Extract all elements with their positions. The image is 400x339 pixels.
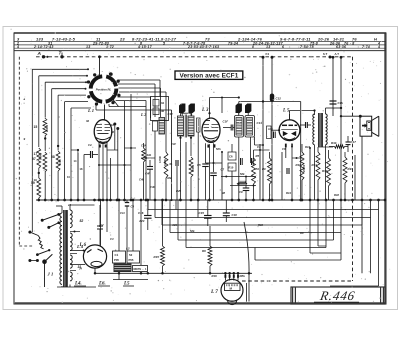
wire curve to magic eye xyxy=(244,222,249,273)
T1 bottom wires xyxy=(180,136,182,200)
svg-text:R15: R15 xyxy=(154,255,160,259)
IF transformer T2 trimmer arrow 1 xyxy=(236,104,242,114)
resistor R30 xyxy=(327,158,331,186)
loop end dots xyxy=(87,68,89,70)
svg-text:20·26: 20·26 xyxy=(317,36,330,41)
rectifier leads xyxy=(100,200,102,246)
svg-text:7·74: 7·74 xyxy=(362,45,370,49)
svg-text:52k: 52k xyxy=(240,172,245,176)
IF transformer T1 trimmer arrow 2 xyxy=(189,104,195,114)
tube L5 grid dashes xyxy=(282,124,287,126)
wire horizontal connector xyxy=(318,146,333,148)
capacitor C18b on right feed xyxy=(330,100,337,102)
capacitor C18 xyxy=(223,212,230,214)
svg-text:0: 0 xyxy=(252,45,254,49)
svg-text:14·31: 14·31 xyxy=(333,36,345,41)
svg-text:36: 36 xyxy=(161,109,165,113)
svg-text:R33: R33 xyxy=(348,167,354,171)
capacitor C5 xyxy=(202,163,209,165)
svg-text:Version avec ECF1: Version avec ECF1 xyxy=(179,73,238,80)
svg-text:34b: 34b xyxy=(147,153,152,157)
wire xyxy=(83,155,85,201)
wire xyxy=(117,129,119,201)
capacitor C13 xyxy=(305,122,307,128)
magic eye leads xyxy=(224,273,226,280)
transformer to rectifier wires xyxy=(70,250,84,252)
svg-text:10000: 10000 xyxy=(164,158,167,166)
svg-text:7·54·78: 7·54·78 xyxy=(300,45,314,49)
T2 bottom wires xyxy=(238,137,240,200)
striped box BOB MODUL xyxy=(114,264,132,273)
wire speaker return xyxy=(361,136,363,273)
svg-text:133: 133 xyxy=(36,36,44,41)
transformer bottom leads xyxy=(61,286,63,287)
tube L5 pin stubs xyxy=(285,144,287,148)
tube L5 pin wires xyxy=(285,147,287,158)
svg-text:1·72: 1·72 xyxy=(106,45,114,49)
resistor 59 xyxy=(37,178,41,198)
drawing frame xyxy=(14,33,386,304)
resistor R33 xyxy=(343,157,347,183)
svg-text:R.446: R.446 xyxy=(318,288,356,303)
wire L5 right xyxy=(300,115,302,200)
capacitor pair b xyxy=(251,158,253,165)
option box C1 POS xyxy=(113,251,126,263)
capacitor small mid 1 xyxy=(175,160,177,166)
svg-text:1000: 1000 xyxy=(58,159,62,165)
IF transformer T2 trimmer arrow 2 xyxy=(245,104,251,114)
wire xyxy=(175,200,177,210)
svg-text:C8: C8 xyxy=(131,205,135,209)
svg-text:C5A: C5A xyxy=(141,144,146,148)
resistor 17 xyxy=(43,152,47,172)
padder component box xyxy=(151,97,169,121)
svg-text:40000: 40000 xyxy=(191,164,195,172)
wire xyxy=(118,272,120,280)
svg-text:8·72·23·41·11,8·13·27: 8·72·23·41·11,8·13·27 xyxy=(132,36,177,41)
svg-text:R8b: R8b xyxy=(240,274,246,278)
svg-text:C4b: C4b xyxy=(139,178,144,182)
switch lever 3 xyxy=(37,250,49,254)
capacitor pair a xyxy=(240,158,242,165)
svg-text:C9: C9 xyxy=(239,190,243,194)
wire xyxy=(281,152,283,200)
wire xyxy=(125,147,137,149)
wire xyxy=(44,172,46,200)
bus junction dots xyxy=(37,199,40,202)
wire ring to padder top xyxy=(118,79,160,81)
wire horizontal connector xyxy=(292,157,302,159)
speaker frame xyxy=(360,116,372,136)
wire right feed B xyxy=(340,56,343,59)
svg-text:C4: C4 xyxy=(257,145,261,149)
wire horizontal connector xyxy=(254,149,270,151)
wire xyxy=(221,152,223,200)
wire under ring 2 xyxy=(108,104,110,107)
wire xyxy=(354,155,356,200)
wire drops to supply boxes xyxy=(118,200,120,251)
svg-text:73: 73 xyxy=(205,36,210,41)
capacitor A10 xyxy=(273,132,275,139)
tube L3 top pin xyxy=(209,113,211,119)
tube L5 envelope xyxy=(279,120,300,141)
svg-text:C8: C8 xyxy=(282,147,286,151)
wire xyxy=(221,98,223,114)
noise speckles xyxy=(135,74,136,75)
lower wire bus xyxy=(95,272,253,274)
wire xyxy=(44,136,46,151)
svg-text:L 7: L 7 xyxy=(210,289,218,295)
version label box xyxy=(175,71,243,79)
wire xyxy=(309,200,311,253)
svg-text:C6: C6 xyxy=(229,155,233,159)
wiring harness below bus xyxy=(148,209,379,211)
small coil beside T1 xyxy=(159,118,165,135)
svg-text:22: 22 xyxy=(67,203,71,207)
tube L1 pin wires xyxy=(98,143,100,201)
switch lever 4 xyxy=(42,259,47,264)
svg-text:6.T: 6.T xyxy=(323,52,328,56)
speaker voice coil xyxy=(367,121,371,130)
speaker magnet arrow xyxy=(362,125,367,127)
svg-text:C17: C17 xyxy=(351,140,357,144)
svg-text:13: 13 xyxy=(266,45,270,49)
wire ring to tube L1 xyxy=(104,105,106,120)
wire xyxy=(230,185,256,187)
wire xyxy=(317,200,319,246)
svg-text:63·36: 63·36 xyxy=(336,45,347,49)
tube L5 plate wire xyxy=(289,114,291,120)
wire L3 plate to T2 xyxy=(209,98,211,114)
IF transformer T1 secondary coil xyxy=(188,116,194,136)
speaker cone xyxy=(372,116,379,120)
svg-text:P05: P05 xyxy=(129,258,134,262)
svg-text:76: 76 xyxy=(352,36,357,41)
transformer top leads xyxy=(61,206,63,213)
wire horizontal connector xyxy=(141,157,155,159)
output transformer bottom leads xyxy=(314,145,316,200)
wire under ring 1 xyxy=(95,103,97,110)
svg-text:7·13·43·2·5: 7·13·43·2·5 xyxy=(52,36,76,41)
svg-text:L 2: L 2 xyxy=(140,112,146,117)
svg-text:38: 38 xyxy=(222,191,225,195)
svg-text:C18: C18 xyxy=(232,213,238,217)
svg-text:52: 52 xyxy=(129,253,133,257)
svg-text:MIXTE ← 1: MIXTE ← 1 xyxy=(134,268,148,271)
title box R.446 xyxy=(291,287,385,304)
resistor R6 xyxy=(208,246,212,266)
tube L3 grid side cap xyxy=(197,118,201,132)
output transformer top leads xyxy=(314,111,316,116)
svg-text:C1F: C1F xyxy=(223,120,229,124)
junction on antenna wire xyxy=(98,55,101,58)
svg-text:R30: R30 xyxy=(322,169,328,173)
svg-text:15: 15 xyxy=(34,125,38,129)
IF transformer T1 primary coil xyxy=(178,116,184,136)
svg-text:A5: A5 xyxy=(256,167,260,171)
rectifier tube L6 xyxy=(83,245,106,268)
tube L5 grid wire xyxy=(271,129,279,131)
svg-text:R10: R10 xyxy=(229,166,234,170)
svg-text:C5: C5 xyxy=(197,163,201,167)
IF transformer T2 primary xyxy=(235,116,244,138)
svg-text:A21: A21 xyxy=(171,223,177,227)
wire horizontal connector xyxy=(99,164,131,166)
title-block ruler lines xyxy=(14,32,386,34)
svg-text:4·15·17: 4·15·17 xyxy=(137,45,153,49)
svg-text:52h: 52h xyxy=(216,147,221,151)
resistor 57 xyxy=(37,148,41,168)
small diagonal resistor xyxy=(38,236,43,249)
svg-text:C1F: C1F xyxy=(171,142,176,146)
magic eye base tab xyxy=(228,301,237,305)
resistor R15 xyxy=(161,246,165,266)
tube L3 pin wires xyxy=(205,143,207,163)
magic eye target xyxy=(225,283,241,290)
svg-text:L 6: L 6 xyxy=(79,243,87,248)
capacitor C15 xyxy=(204,215,212,217)
resistor 58 xyxy=(56,151,60,171)
capacitor C4F xyxy=(147,166,153,168)
svg-text:58: 58 xyxy=(51,155,55,159)
rectifier filament oval xyxy=(91,261,102,266)
svg-text:R11: R11 xyxy=(296,163,301,167)
wire right feed A xyxy=(332,56,335,59)
option box MIXTE xyxy=(133,266,148,272)
svg-text:C1: C1 xyxy=(115,253,119,257)
dashed return wire bottom xyxy=(242,280,353,282)
wire xyxy=(57,171,59,200)
svg-text:H: H xyxy=(374,36,377,41)
resistor R13 xyxy=(316,152,320,180)
mains transformer core xyxy=(63,210,67,287)
svg-text:R25: R25 xyxy=(176,189,181,193)
main ground bus xyxy=(36,199,385,201)
wire xyxy=(309,148,311,200)
svg-text:L 1: L 1 xyxy=(87,108,94,113)
svg-text:2·14·72·43: 2·14·72·43 xyxy=(33,45,54,49)
tube L5 beam arrows xyxy=(283,131,288,136)
capacitor C16 xyxy=(144,215,152,217)
T1 top wires xyxy=(180,113,182,116)
wire xyxy=(254,248,256,261)
svg-text:R34: R34 xyxy=(331,141,337,145)
mains transformer primary winding xyxy=(60,213,62,284)
svg-text:17: 17 xyxy=(34,152,38,156)
svg-text:52: 52 xyxy=(80,219,84,223)
wire xyxy=(77,150,79,200)
svg-text:C4b: C4b xyxy=(150,185,155,189)
IF transformer T1 trimmer arrow 1 xyxy=(179,104,185,114)
switch contact stub xyxy=(28,231,31,234)
svg-text:R9: R9 xyxy=(262,167,266,171)
svg-text:4: 4 xyxy=(16,45,19,49)
wire xyxy=(197,200,199,218)
svg-text:13700: 13700 xyxy=(159,155,162,163)
wire dial lamp feed 2 xyxy=(271,56,274,59)
capacitor C2 small xyxy=(97,225,103,227)
rectifier filament dashes xyxy=(87,250,92,253)
resistor R34 xyxy=(335,145,345,148)
option box 52 POS xyxy=(127,251,140,263)
switch lever 2 xyxy=(47,226,50,229)
svg-text:R8: R8 xyxy=(300,231,304,235)
svg-text:19: 19 xyxy=(34,178,38,182)
wire dial lamp feed 1 xyxy=(262,56,265,59)
svg-text:R19: R19 xyxy=(258,223,263,227)
svg-text:R18: R18 xyxy=(334,193,339,197)
tube L1 envelope xyxy=(94,120,112,144)
svg-text:R14: R14 xyxy=(286,191,291,195)
svg-text:L 5: L 5 xyxy=(282,109,290,114)
svg-text:C12: C12 xyxy=(276,97,282,101)
svg-text:C2: C2 xyxy=(100,223,104,227)
wire xyxy=(221,176,256,178)
IF transformer T1 core xyxy=(184,115,186,138)
svg-text:C3: C3 xyxy=(110,237,114,241)
resistor R9 xyxy=(268,158,272,184)
wire xyxy=(254,137,256,145)
capacitor pair left xyxy=(90,151,92,158)
svg-text:Cd: Cd xyxy=(88,143,92,147)
component box C6 xyxy=(228,152,236,160)
tube L1 grid lines xyxy=(97,124,103,126)
wire horizontal connector xyxy=(206,162,223,164)
svg-text:32k: 32k xyxy=(167,176,172,180)
switch lever 1 xyxy=(41,219,44,222)
padder trimmer caps xyxy=(153,100,159,107)
dashed return wire right side xyxy=(352,57,354,281)
resistor 15 xyxy=(43,118,47,136)
output transformer primary coil xyxy=(313,114,315,145)
svg-text:F4: F4 xyxy=(266,52,270,56)
IF transformer T2 secondary xyxy=(245,116,255,138)
svg-text:C11: C11 xyxy=(120,211,125,215)
svg-text:57: 57 xyxy=(32,157,36,161)
resistor 34b xyxy=(142,148,146,162)
wire antenna to oscillator ring xyxy=(99,57,101,76)
svg-text:4: 4 xyxy=(377,45,380,49)
switch wires xyxy=(31,204,33,232)
wires from ring right side xyxy=(118,83,155,85)
wire harness right verticals xyxy=(378,200,380,286)
svg-text:R6: R6 xyxy=(202,249,206,253)
svg-text:C14: C14 xyxy=(257,121,263,125)
resistor R11 xyxy=(300,152,304,180)
svg-text:C15: C15 xyxy=(199,211,205,215)
svg-text:A.T: A.T xyxy=(335,52,340,56)
svg-text:25000: 25000 xyxy=(45,124,49,132)
svg-text:L2: L2 xyxy=(126,247,130,251)
tube L1 pin stubs xyxy=(99,145,101,148)
svg-text:11: 11 xyxy=(96,36,101,41)
wire xyxy=(38,168,40,178)
capacitor small mid 2 xyxy=(286,168,288,174)
svg-text:23: 23 xyxy=(119,36,125,41)
svg-text:R13: R13 xyxy=(312,163,318,167)
svg-text:P05: P05 xyxy=(114,258,119,262)
node 6T on antenna line xyxy=(329,56,332,59)
band switch wiring loops xyxy=(32,68,88,70)
small cap beside T1 xyxy=(153,121,158,131)
dashed wire left side xyxy=(18,57,20,246)
mains transformer secondary windings xyxy=(70,210,72,228)
svg-text:2·134·14·76: 2·134·14·76 xyxy=(237,36,263,41)
svg-text:34: 34 xyxy=(161,101,165,105)
resistor under T1 xyxy=(189,157,193,177)
svg-text:C4F: C4F xyxy=(145,172,150,176)
resistor 52k horizontal xyxy=(237,182,247,185)
fuse capsule C12 xyxy=(270,94,274,102)
transformer taps xyxy=(70,231,80,233)
wire below-bus drops left xyxy=(99,205,101,226)
magic eye tube L7 xyxy=(221,279,243,301)
wire xyxy=(171,110,173,200)
svg-text:45: 45 xyxy=(169,162,173,166)
wire xyxy=(259,144,261,200)
svg-text:50000: 50000 xyxy=(39,152,43,160)
tube L3 envelope xyxy=(202,118,220,142)
ring pin dots xyxy=(109,73,112,76)
svg-text:52k: 52k xyxy=(190,229,195,233)
svg-text:Position RL: Position RL xyxy=(96,87,112,91)
capacitor C17 xyxy=(346,141,351,143)
svg-text:C1b: C1b xyxy=(338,101,344,105)
svg-text:13: 13 xyxy=(86,45,90,49)
antenna dashed wire xyxy=(36,56,310,58)
tube L3 pin stubs xyxy=(207,144,209,147)
tube L5 cathode xyxy=(284,138,295,140)
oscillator coil unit ring xyxy=(106,77,116,87)
svg-text:79·34: 79·34 xyxy=(228,42,238,46)
wire drops to IF area xyxy=(154,84,156,117)
wire diag ring bottom xyxy=(113,100,119,107)
svg-text:C1F: C1F xyxy=(168,112,174,116)
wire xyxy=(110,158,112,200)
T2 top wire to B+ xyxy=(238,102,240,116)
resistor A5 xyxy=(252,158,256,184)
capacitor C7 xyxy=(210,172,217,174)
wire xyxy=(185,142,187,200)
svg-text:R17: R17 xyxy=(305,145,310,149)
tube L3 electrodes xyxy=(204,124,210,126)
svg-text:R5: R5 xyxy=(256,154,260,158)
svg-text:C7: C7 xyxy=(221,168,225,172)
output transformer secondary coil xyxy=(326,114,328,145)
speaker wires xyxy=(359,115,362,118)
capacitor C9 xyxy=(243,187,250,189)
svg-text:9·6·7·8·77·8·11: 9·6·7·8·77·8·11 xyxy=(280,36,311,41)
svg-text:J 1: J 1 xyxy=(47,272,54,277)
wire ring bottom drops xyxy=(124,101,126,200)
svg-text:R16: R16 xyxy=(212,274,218,278)
svg-text:23·83·43·5·7·163: 23·83·43·5·7·163 xyxy=(187,45,219,49)
svg-text:L 3: L 3 xyxy=(201,108,209,113)
component box R10 xyxy=(228,163,236,171)
resistor 45 xyxy=(164,152,168,178)
output transformer core xyxy=(318,113,322,147)
mains terminals xyxy=(28,259,31,262)
